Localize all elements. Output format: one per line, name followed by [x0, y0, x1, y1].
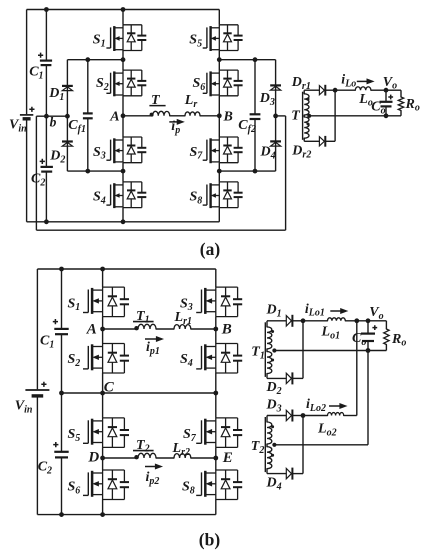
wire D2 row — [267, 377, 286, 379]
transformer T1 secondary core bar — [264, 322, 266, 377]
transformer T2 core bar — [133, 450, 154, 452]
switch S3 (MOSFET with body diode and capacitor) — [106, 137, 146, 163]
wire leg1 S1-S2 — [122, 51, 124, 71]
inductor Lo1 winding — [328, 318, 346, 321]
junction rectifier output — [333, 88, 338, 93]
junction bottom rail / C column (b) — [59, 512, 64, 517]
wire C column middle (a) — [45, 65, 47, 167]
wire mid rail to S5 (b) — [102, 393, 104, 418]
svg-text:(a): (a) — [200, 239, 221, 259]
wire b return jog to D3/D4 — [276, 115, 286, 117]
transformer T secondary polarity dot upper — [307, 98, 310, 101]
wire D1/D2 column — [66, 60, 68, 171]
capacitor Cf2 — [250, 113, 261, 115]
capacitor C1 plates (b) — [54, 328, 68, 330]
wire Cf2 column bottom — [254, 119, 256, 171]
wire Vin column lower (a) — [26, 120, 28, 222]
switch S8 (MOSFET with body diode and capacitor) — [203, 182, 243, 208]
switch S2 (MOSFET with body diode and capacitor) — [106, 70, 146, 96]
transformer T1 secondary winding upper — [266, 321, 268, 327]
transformer T1 primary polarity dot — [134, 326, 138, 330]
transformer T1 secondary center tap — [272, 348, 276, 352]
junction D1/D2 output — [301, 318, 306, 323]
transformer T2 secondary polarity dot upper — [271, 425, 274, 428]
wire T to Lr — [170, 115, 185, 117]
wire Lr to node B — [200, 115, 219, 117]
switch S6 (b) — [83, 470, 129, 500]
transformer T2 secondary polarity dot lower — [271, 454, 274, 457]
junction S3-S4 midpoint — [121, 169, 126, 174]
capacitor Cf1 — [83, 112, 93, 114]
svg-text:D: D — [87, 450, 99, 466]
wire S7 to node E (b) — [215, 447, 217, 458]
wire mid rail to S7 (b) — [215, 393, 217, 418]
svg-text:b: b — [50, 115, 57, 130]
capacitor Co (a) — [385, 90, 387, 102]
wire output to Lo — [335, 89, 355, 91]
wire S4 to mid rail (b) — [215, 373, 217, 393]
wire leg2 S5-S6 — [218, 51, 220, 71]
wire T2 to Lr2 — [156, 457, 174, 459]
capacitor C1 plates (a) — [40, 59, 52, 61]
wire Lo2 to riser — [344, 415, 357, 417]
junction Lo2 riser top — [354, 318, 359, 323]
wire leg2 S8 to bottom rail — [218, 208, 220, 222]
wire S2 to mid rail (b) — [102, 373, 104, 393]
wire bottom rail (a) — [27, 221, 220, 223]
inductor Lr2 winding — [174, 454, 191, 458]
wire top rail (b) — [37, 268, 215, 270]
diode D1 — [62, 85, 73, 87]
wire Cf1 column top — [87, 60, 89, 114]
wire Ro bottom lead (b) — [385, 345, 387, 351]
current arrow iLo1 — [330, 310, 342, 312]
wire T2 center tap return — [274, 444, 368, 446]
junction Cf2 bottom — [253, 169, 258, 174]
wire Ro top lead — [400, 90, 402, 97]
transformer T1 secondary polarity dot upper — [271, 330, 274, 333]
transformer T secondary center tap — [307, 114, 311, 118]
wire T1 center tap return — [274, 350, 386, 352]
wire node A to S2 (b) — [102, 329, 104, 344]
current arrow iLo — [357, 80, 369, 82]
wire node D to T2 primary — [103, 457, 137, 459]
switch S1 (MOSFET with body diode and capacitor) — [106, 25, 146, 51]
junction mid rail / leg2 (b) — [213, 391, 218, 396]
junction top rail / leg S1 — [121, 7, 126, 12]
junction S7-S8 midpoint — [217, 169, 222, 174]
diode D4 — [270, 140, 281, 142]
wire Cf1 column bottom — [87, 118, 89, 171]
wire S3-S4 midpoint row left — [67, 170, 123, 172]
transformer T2 primary winding — [138, 453, 156, 458]
transformer T1 core bar — [133, 321, 154, 323]
junction S5-S6 midpoint — [217, 57, 222, 62]
svg-text:T: T — [291, 108, 301, 123]
inductor Lo winding — [355, 87, 371, 90]
transformer T2 secondary center tap — [272, 443, 276, 447]
svg-text:C: C — [104, 380, 115, 396]
diode D2 (b) — [286, 373, 291, 383]
junction top rail / leg1 (b) — [100, 267, 105, 272]
wire top rail (a) — [27, 9, 220, 11]
wire node E to S8 (b) — [215, 458, 217, 470]
transformer T1 secondary polarity dot lower — [271, 359, 274, 362]
wire node b horizontal — [36, 115, 67, 117]
wire D4 riser — [293, 473, 303, 475]
wire Vo to Ro top — [386, 89, 401, 91]
wire output2 to Lo2 — [303, 415, 328, 417]
switch S8 (b) — [196, 470, 242, 500]
wire S6 to bottom rail (b) — [102, 500, 104, 515]
wire leg1 drain S1 — [122, 10, 124, 25]
resistor Ro (b) — [384, 329, 389, 345]
wire D2 riser — [293, 377, 303, 379]
wire Dr2 row — [304, 140, 319, 142]
current arrow iLo2 — [329, 405, 341, 407]
node E (b) — [213, 456, 218, 461]
wire leg2 top (b) — [215, 269, 217, 287]
wire node B to S4 (b) — [215, 329, 217, 344]
battery Vin (a) plates — [20, 114, 33, 116]
wire rectifier riser — [334, 90, 336, 141]
switch S5 (MOSFET with body diode and capacitor) — [203, 25, 243, 51]
switch S2 (b) — [83, 344, 129, 374]
junction S1-S2 midpoint — [121, 57, 126, 62]
svg-text:E: E — [222, 450, 233, 466]
node D (b) — [100, 456, 105, 461]
switch S7 (b) — [196, 418, 242, 448]
wire D3 row — [267, 415, 286, 417]
wire mid rail (b) — [62, 392, 216, 394]
wire C column mid upper (b) — [61, 334, 63, 393]
switch S3 (b) — [196, 287, 242, 317]
wire D3/D4 column — [275, 60, 277, 171]
diode D3 — [270, 84, 281, 86]
wire return riser for T2 — [367, 351, 369, 445]
wire leg2 drain S5 — [218, 10, 220, 25]
svg-text:A: A — [109, 110, 119, 125]
transformer T2 secondary core bar — [264, 417, 266, 472]
diode Dr2 — [319, 137, 324, 146]
junction Cf1 top — [85, 57, 90, 62]
wire node A to transformer T primary — [123, 115, 152, 117]
wire Dr2 to riser — [326, 140, 335, 142]
wire C column mid lower (b) — [61, 393, 63, 452]
inductor Lr winding — [185, 112, 200, 116]
wire S8 to bottom rail (b) — [215, 500, 217, 515]
junction mid rail / C column (b) — [59, 391, 64, 396]
node B (b) — [213, 327, 218, 332]
transformer T2 secondary winding lower — [266, 444, 268, 447]
wire leg2 S7-S8 — [218, 163, 220, 182]
junction bottom rail / C2 column — [44, 219, 49, 224]
wire S5-S6 midpoint row right — [219, 59, 275, 61]
current arrow ip — [169, 121, 178, 123]
transformer T secondary polarity dot lower — [307, 123, 310, 126]
battery Vin (b) plates — [25, 389, 49, 391]
junction Co bottom (b) — [366, 348, 371, 353]
svg-text:(b): (b) — [199, 530, 221, 550]
current arrow ip2 — [145, 466, 157, 468]
wire S5 to node D (b) — [102, 447, 104, 458]
junction top rail / C1 column — [44, 7, 49, 12]
diode Dr1 — [319, 86, 324, 95]
wire D1 to junction — [293, 320, 303, 322]
inductor Lo2 winding — [328, 413, 344, 416]
inductor Lr1 winding — [174, 325, 191, 329]
wire Lo to Vo node — [371, 89, 386, 91]
transformer T secondary core bar — [302, 92, 304, 140]
wire S7-S8 midpoint row right — [219, 170, 275, 172]
transformer T secondary winding upper — [303, 90, 305, 94]
junction top rail / C column (b) — [59, 267, 64, 272]
wire C column bottom (a) — [45, 172, 47, 222]
transformer T1 secondary winding lower — [266, 349, 268, 352]
wire leg1 node A to S3 — [122, 116, 124, 137]
wire C column top (a) — [45, 10, 47, 61]
svg-text:T: T — [151, 93, 161, 108]
transformer T1 primary winding — [138, 324, 156, 329]
junction b-wire / C column — [44, 114, 49, 119]
switch S6 (MOSFET with body diode and capacitor) — [203, 70, 243, 96]
transformer T secondary winding lower — [303, 115, 305, 117]
wire b return riser — [285, 116, 287, 230]
diode D1 (b) — [286, 316, 291, 326]
wire battery column upper (b) — [36, 269, 38, 389]
svg-text:A: A — [86, 322, 97, 338]
wire leg2 S6 to node B — [218, 96, 220, 116]
capacitor C2 plates (a) — [41, 166, 53, 168]
wire leg1 S4 to bottom rail — [122, 208, 124, 222]
junction bottom rail / leg1 (b) — [100, 512, 105, 517]
wire S1-S2 midpoint row left — [67, 59, 123, 61]
junction bottom rail / leg S4 — [121, 219, 126, 224]
wire D1 row — [267, 320, 286, 322]
wire leg1 S2 to node A — [122, 96, 124, 116]
wire Ro bottom lead — [400, 111, 402, 116]
node B (a) — [217, 113, 222, 118]
node A (a) — [121, 113, 126, 118]
junction D3/D4 output — [301, 413, 306, 418]
wire Vo to Ro (b) — [385, 321, 387, 329]
junction Co bottom — [384, 113, 389, 118]
wire Lr2 to node E — [191, 457, 216, 459]
current arrow ip1 — [145, 338, 158, 340]
capacitor C2 plates (b) — [54, 451, 68, 453]
junction Cf1 bottom — [85, 169, 90, 174]
diode D2 — [62, 140, 73, 142]
wire Lr1 to node B — [191, 328, 216, 330]
transformer T primary polarity dot — [150, 113, 154, 117]
wire bottom rail (b) — [37, 514, 215, 516]
wire Dr1 to junction — [326, 89, 335, 91]
wire leg2 node B to S7 — [218, 116, 220, 137]
wire node A to T1 primary — [103, 328, 137, 330]
wire Dr1 row — [304, 89, 319, 91]
switch S7 (MOSFET with body diode and capacitor) — [203, 137, 243, 163]
wire Cf2 column top — [254, 60, 256, 115]
node b junction at D1/D2 column — [65, 114, 70, 119]
wire leg1 S3-S4 — [122, 163, 124, 182]
wire battery column lower (b) — [36, 397, 38, 515]
wire Lo1 to Vo node — [345, 320, 386, 322]
wire b drop vertical — [35, 116, 37, 230]
junction D3/D4 midpoint — [273, 114, 278, 119]
switch S1 (b) — [83, 287, 129, 317]
svg-text:B: B — [221, 321, 232, 337]
wire T1 to Lr1 — [156, 328, 174, 330]
switch S4 (b) — [196, 344, 242, 374]
node Vo (a) — [384, 88, 389, 93]
wire node D to S6 (b) — [102, 458, 104, 470]
diode D4 (b) — [286, 468, 291, 478]
wire Vin column upper (a) — [26, 10, 28, 115]
junction Cf2 top — [253, 57, 258, 62]
wire D4 row — [267, 473, 286, 475]
wire leg2 S3 to node B (b) — [215, 317, 217, 329]
wire b return horizontal — [36, 229, 285, 231]
junction mid rail / leg1 (b) — [100, 391, 105, 396]
transformer T core bar — [149, 105, 165, 107]
wire Vo riser for Lo2 — [356, 321, 358, 416]
wire center tap to output return — [309, 115, 401, 117]
capacitor Co (b) — [367, 321, 369, 334]
transformer T2 primary polarity dot — [134, 455, 138, 459]
svg-text:B: B — [223, 110, 233, 125]
node Vo (b) — [366, 318, 371, 323]
switch S5 (b) — [83, 418, 129, 448]
wire C column bottom (b) — [61, 457, 63, 514]
wire leg1 top (b) — [102, 269, 104, 287]
wire C column top (b) — [61, 269, 63, 329]
wire output1 to Lo1 — [303, 320, 328, 322]
diode D3 (b) — [286, 410, 291, 420]
resistor Ro (a) — [398, 97, 403, 111]
transformer T2 secondary winding upper — [266, 416, 268, 423]
node A (b) — [100, 327, 105, 332]
wire leg1 S1 to node A (b) — [102, 317, 104, 329]
transformer T primary winding — [153, 111, 170, 115]
wire D3 to junction — [293, 415, 303, 417]
switch S4 (MOSFET with body diode and capacitor) — [106, 182, 146, 208]
